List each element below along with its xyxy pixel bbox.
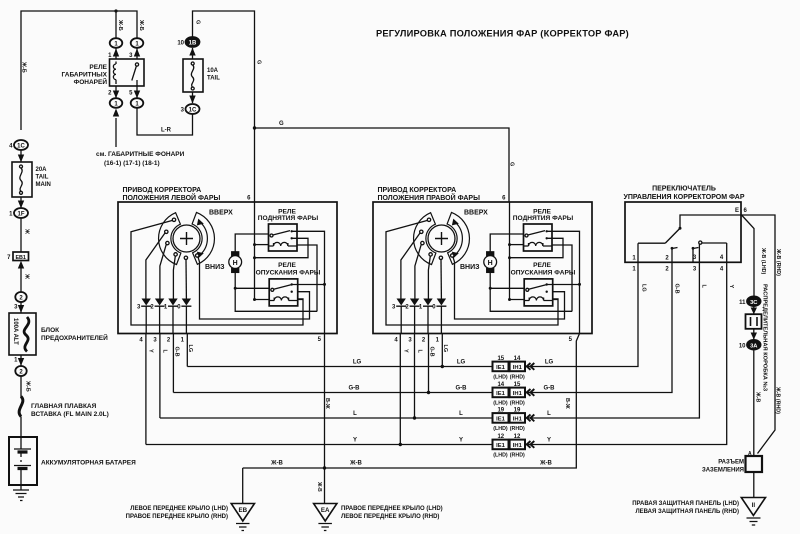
wire to EB1 (20, 218, 22, 252)
svg-text:EA: EA (321, 507, 330, 514)
E wire inside (680, 215, 741, 228)
wire to ground (753, 472, 755, 498)
connector pair row Y (493, 434, 535, 459)
arrow into relay pin3 (136, 48, 138, 59)
svg-text:IE1: IE1 (496, 365, 505, 371)
svg-text:В-Ж: В-Ж (564, 398, 570, 409)
svg-text:(RHD): (RHD) (510, 452, 525, 458)
svg-text:Ж-В: Ж-В (755, 391, 761, 403)
svg-text:ПРИВОД КОРРЕКТОРА: ПРИВОД КОРРЕКТОРА (378, 187, 457, 194)
wire relay drop (115, 11, 117, 38)
connector circle 2 lower (15, 366, 26, 376)
svg-text:(RHD): (RHD) (510, 426, 525, 432)
svg-text:G: G (509, 162, 515, 166)
svg-text:ЛЕВАЯ ЗАЩИТНАЯ ПАНЕЛЬ (RHD): ЛЕВАЯ ЗАЩИТНАЯ ПАНЕЛЬ (RHD) (635, 509, 739, 515)
fuse 10A TAIL box (183, 59, 203, 92)
svg-text:1F: 1F (17, 212, 24, 218)
main fusible link symbol (19, 397, 23, 417)
svg-text:РЕГУЛИРОВКА ПОЛОЖЕНИЯ ФАР (КОР: РЕГУЛИРОВКА ПОЛОЖЕНИЯ ФАР (КОРРЕКТОР ФАР… (376, 29, 629, 39)
svg-text:ФОНАРЕЙ: ФОНАРЕЙ (74, 77, 108, 86)
svg-text:Ж-Б: Ж-Б (117, 19, 123, 31)
left pin5 wire to ground row (324, 334, 326, 469)
svg-text:ПРАВОЕ ПЕРЕДНЕЕ КРЫЛО (RHD): ПРАВОЕ ПЕРЕДНЕЕ КРЫЛО (RHD) (126, 514, 228, 520)
fuse 20A TAIL MAIN box (12, 162, 32, 197)
svg-text:L: L (547, 411, 551, 417)
svg-text:IH1: IH1 (513, 443, 523, 449)
svg-text:(16-1) (17-1) (18-1): (16-1) (17-1) (18-1) (104, 160, 160, 167)
svg-text:IE1: IE1 (496, 391, 505, 397)
svg-text:РАЗЪЕМ: РАЗЪЕМ (718, 460, 744, 466)
svg-text:11: 11 (739, 300, 746, 306)
svg-text:G: G (256, 60, 262, 64)
arrow up into 1B (192, 48, 194, 59)
svg-text:ПЕРЕКЛЮЧАТЕЛЬ: ПЕРЕКЛЮЧАТЕЛЬ (652, 186, 716, 193)
left pin1 wire to LG row (186, 334, 188, 367)
G bus horizontal (255, 128, 510, 202)
svg-text:G-B: G-B (674, 284, 680, 294)
connector pair row L (493, 407, 535, 432)
contact segment right (702, 243, 727, 262)
connector oval 3C (747, 296, 761, 306)
svg-text:ПРИВОД КОРРЕКТОРА: ПРИВОД КОРРЕКТОРА (123, 187, 202, 194)
svg-text:100A ALT: 100A ALT (12, 318, 18, 345)
L row (160, 262, 700, 418)
relay pin5 wire with arrow down (136, 86, 138, 98)
svg-text:ЛЕВОЕ ПЕРЕДНЕЕ КРЫЛО (LHD): ЛЕВОЕ ПЕРЕДНЕЕ КРЫЛО (LHD) (130, 506, 228, 512)
arrow down into 1F (20, 197, 22, 208)
arrow down into junction box (753, 306, 755, 314)
svg-text:ЗАЗЕМЛЕНИЯ: ЗАЗЕМЛЕНИЯ (702, 468, 744, 474)
svg-text:II: II (752, 502, 756, 509)
svg-text:G-B: G-B (544, 386, 556, 392)
main linework root (7, 9, 514, 500)
svg-text:IH1: IH1 (513, 416, 523, 422)
svg-text:IH1: IH1 (513, 365, 523, 371)
svg-text:Ж-Б: Ж-Б (21, 61, 27, 73)
svg-text:ПОЛОЖЕНИЯ ЛЕВОЙ ФАРЫ: ПОЛОЖЕНИЯ ЛЕВОЙ ФАРЫ (123, 193, 221, 202)
connector oval 1 (relay pin2 bottom) (110, 98, 123, 108)
svg-text:Y: Y (353, 438, 357, 444)
right pin3 wire (414, 334, 416, 419)
svg-text:Y: Y (459, 438, 463, 444)
right corrector drive unit (373, 196, 592, 357)
right pin1 wire (441, 334, 443, 367)
svg-text:LG: LG (457, 360, 466, 366)
svg-text:10: 10 (739, 344, 746, 350)
Y row (146, 262, 727, 444)
svg-text:IH1: IH1 (513, 391, 523, 397)
right pin2 wire (428, 334, 430, 393)
svg-text:РЕЛЕ: РЕЛЕ (89, 64, 107, 71)
ground EA (314, 504, 337, 522)
arrow into relay pin1 (115, 48, 117, 59)
svg-text:TAIL: TAIL (36, 175, 49, 181)
svg-text:3A: 3A (750, 343, 758, 349)
svg-text:10A: 10A (207, 68, 219, 74)
LG row (187, 262, 638, 366)
feed arrow up into pin2 oval (115, 118, 117, 147)
svg-text:УПРАВЛЕНИЯ КОРРЕКТОРОМ ФАР: УПРАВЛЕНИЯ КОРРЕКТОРОМ ФАР (623, 194, 744, 201)
svg-text:IE1: IE1 (496, 416, 505, 422)
svg-text:Ж-В: Ж-В (539, 461, 552, 467)
LHD wire lower (753, 350, 755, 457)
svg-text:G: G (195, 20, 201, 24)
svg-text:ГЛАВНАЯ ПЛАВКАЯ: ГЛАВНАЯ ПЛАВКАЯ (31, 403, 97, 410)
svg-text:G-B: G-B (456, 386, 468, 392)
svg-text:LG: LG (353, 360, 362, 366)
svg-text:см. ГАБАРИТНЫЕ ФОНАРИ: см. ГАБАРИТНЫЕ ФОНАРИ (96, 151, 185, 158)
arrow down into fuse block (20, 302, 22, 313)
arrow down into 20A fuse (20, 150, 22, 162)
svg-text:(RHD): (RHD) (510, 374, 525, 380)
relay coil (113, 62, 116, 85)
svg-text:Ж-В: Ж-В (316, 481, 322, 492)
ground II symbol (741, 498, 765, 516)
svg-text:ВСТАВКА (FL MAIN 2.0L): ВСТАВКА (FL MAIN 2.0L) (31, 411, 109, 418)
svg-text:Ж-В (RHD): Ж-В (RHD) (775, 248, 781, 276)
relay switch (135, 63, 138, 66)
svg-text:EB: EB (238, 507, 247, 514)
connector oval 1C (186, 104, 200, 114)
arrow down into 1C (192, 92, 194, 103)
svg-text:LG: LG (641, 284, 647, 292)
svg-text:ПРЕДОХРАНИТЕЛЕЙ: ПРЕДОХРАНИТЕЛЕЙ (41, 333, 108, 342)
svg-text:Ж: Ж (24, 273, 30, 279)
svg-text:РАСПРЕДЕЛИТЕЛЬНАЯ КОРОБКА №3: РАСПРЕДЕЛИТЕЛЬНАЯ КОРОБКА №3 (762, 284, 768, 391)
svg-text:БЛОК: БЛОК (41, 327, 59, 334)
connector pair row G-B (493, 382, 535, 407)
battery box (9, 437, 37, 485)
svg-text:АККУМУЛЯТОРНАЯ БАТАРЕЯ: АККУМУЛЯТОРНАЯ БАТАРЕЯ (41, 460, 136, 467)
junction box (746, 314, 762, 329)
svg-text:(LHD): (LHD) (493, 374, 508, 380)
svg-text:ГАБАРИТНЫХ: ГАБАРИТНЫХ (62, 72, 108, 79)
svg-text:3C: 3C (750, 300, 758, 306)
svg-text:1B: 1B (189, 41, 197, 47)
G bus junction dot (253, 126, 256, 129)
svg-text:Ж-В (LHD): Ж-В (LHD) (760, 247, 766, 274)
svg-text:IE1: IE1 (496, 443, 505, 449)
L-R wire (137, 108, 193, 135)
right pin5 wire to ground row corner (243, 334, 580, 469)
connector pair row LG (493, 356, 535, 381)
arrow down into 3A (753, 329, 755, 340)
svg-text:В-Ж: В-Ж (324, 398, 330, 409)
tail lamp relay box (110, 59, 145, 86)
RHD wire (741, 215, 775, 454)
left corrector drive unit (118, 196, 337, 357)
lever (665, 228, 680, 243)
svg-text:Ж: Ж (24, 228, 30, 234)
connector oval 1 (relay pin1 top) (110, 38, 123, 48)
wire to fusible link (20, 376, 22, 398)
EB drop wire (242, 468, 244, 504)
left pin4 wire to Y row (145, 334, 147, 445)
svg-text:Y: Y (547, 438, 551, 444)
connector oval 1F (14, 208, 28, 218)
svg-text:Y: Y (728, 285, 734, 289)
junction EB1 box (13, 252, 29, 261)
svg-text:ПРАВАЯ ЗАЩИТНАЯ ПАНЕЛЬ (LHD): ПРАВАЯ ЗАЩИТНАЯ ПАНЕЛЬ (LHD) (632, 501, 739, 507)
svg-text:ЛЕВОЕ ПЕРЕДНЕЕ КРЫЛО (RHD): ЛЕВОЕ ПЕРЕДНЕЕ КРЫЛО (RHD) (341, 514, 439, 520)
EA drop wire (324, 468, 326, 504)
connector oval 1C left (14, 140, 28, 150)
svg-text:1C: 1C (17, 144, 25, 150)
battery ground (13, 485, 29, 501)
LHD wire upper (742, 216, 754, 297)
svg-text:20A: 20A (36, 167, 48, 173)
left pin3 wire to L row (159, 334, 161, 419)
svg-text:Ж-В: Ж-В (270, 461, 283, 467)
connector oval 3A (747, 340, 761, 350)
arrow up into EB1 (20, 267, 22, 297)
connector oval 1 (relay pin3 top) (131, 38, 144, 48)
pin2 stub (672, 248, 678, 263)
connector oval 1B (186, 37, 200, 47)
svg-text:10: 10 (177, 41, 184, 47)
svg-text:G: G (279, 121, 284, 127)
pin3 stubs (693, 248, 699, 263)
svg-text:Ж-Б: Ж-Б (138, 19, 144, 31)
svg-text:E: E (735, 208, 739, 214)
svg-text:(LHD): (LHD) (493, 426, 508, 432)
arrow down out of fuse block (20, 355, 22, 366)
svg-text:TAIL: TAIL (207, 76, 220, 82)
svg-text:LG: LG (545, 360, 554, 366)
contact segment left (638, 243, 665, 262)
svg-text:MAIN: MAIN (36, 182, 51, 188)
svg-text:L: L (353, 411, 357, 417)
relay pin2 wire with arrow down (115, 86, 117, 98)
svg-text:ПОЛОЖЕНИЯ ПРАВОЙ ФАРЫ: ПОЛОЖЕНИЯ ПРАВОЙ ФАРЫ (378, 193, 481, 202)
svg-text:Ж-В (RHD): Ж-В (RHD) (775, 386, 781, 414)
left pin2 wire to G-B row (172, 334, 174, 393)
ground EB (231, 504, 254, 522)
svg-text:(RHD): (RHD) (510, 400, 525, 406)
svg-text:EB1: EB1 (15, 255, 26, 261)
svg-text:G-B: G-B (349, 386, 361, 392)
svg-text:(LHD): (LHD) (493, 400, 508, 406)
EA junction dot (323, 466, 326, 469)
svg-text:L-R: L-R (161, 128, 172, 134)
svg-text:ПРАВОЕ ПЕРЕДНЕЕ КРЫЛО (LHD): ПРАВОЕ ПЕРЕДНЕЕ КРЫЛО (LHD) (341, 506, 443, 512)
connector oval 1 (relay pin5 bottom) (131, 98, 144, 108)
right pin4 wire (399, 334, 401, 445)
svg-text:Ж-Б: Ж-Б (25, 380, 31, 392)
connector circle 2 (15, 292, 26, 302)
svg-text:1C: 1C (189, 108, 197, 114)
switch box (625, 202, 741, 262)
svg-text:Ж-В: Ж-В (349, 461, 362, 467)
G-B row (173, 262, 672, 392)
fuse block 100A ALT box (9, 313, 36, 355)
svg-text:L: L (459, 411, 463, 417)
svg-text:(LHD): (LHD) (493, 452, 508, 458)
ground connector box (746, 456, 763, 472)
wire top bus left (21, 11, 137, 130)
wire fuse top to G bus (193, 11, 255, 202)
